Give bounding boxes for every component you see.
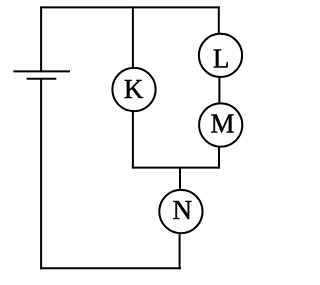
lamp M circle (199, 103, 242, 146)
wire: bottom horizontal (40, 267, 181, 269)
wire: K branch bottom vertical (132, 111, 134, 169)
wire: junction horizontal joining K and LM branches (132, 167, 220, 169)
svg-text:N: N (173, 195, 193, 225)
wire: K branch top vertical (132, 6, 134, 68)
wire: right branch top vertical (218, 6, 220, 34)
wire: between L and M (218, 76, 220, 104)
lamp L circle (199, 34, 242, 77)
wire: top horizontal from battery branch to right branch (40, 6, 220, 8)
wire: left vertical lower (battery bottom lead) (40, 79, 42, 269)
svg-text:L: L (213, 44, 230, 74)
battery: long plate (positive terminal) (13, 70, 70, 72)
lamp N circle (159, 190, 202, 233)
wire: left vertical upper (battery top lead) (40, 6, 42, 71)
battery: short plate (negative terminal) (27, 78, 57, 80)
svg-text:M: M (210, 109, 234, 139)
wire: N branch bottom vertical (179, 233, 181, 269)
svg-text:K: K (124, 74, 144, 104)
wire: right branch bottom vertical (218, 146, 220, 169)
lamp K circle (112, 68, 155, 111)
wire: N branch top vertical (179, 168, 181, 191)
